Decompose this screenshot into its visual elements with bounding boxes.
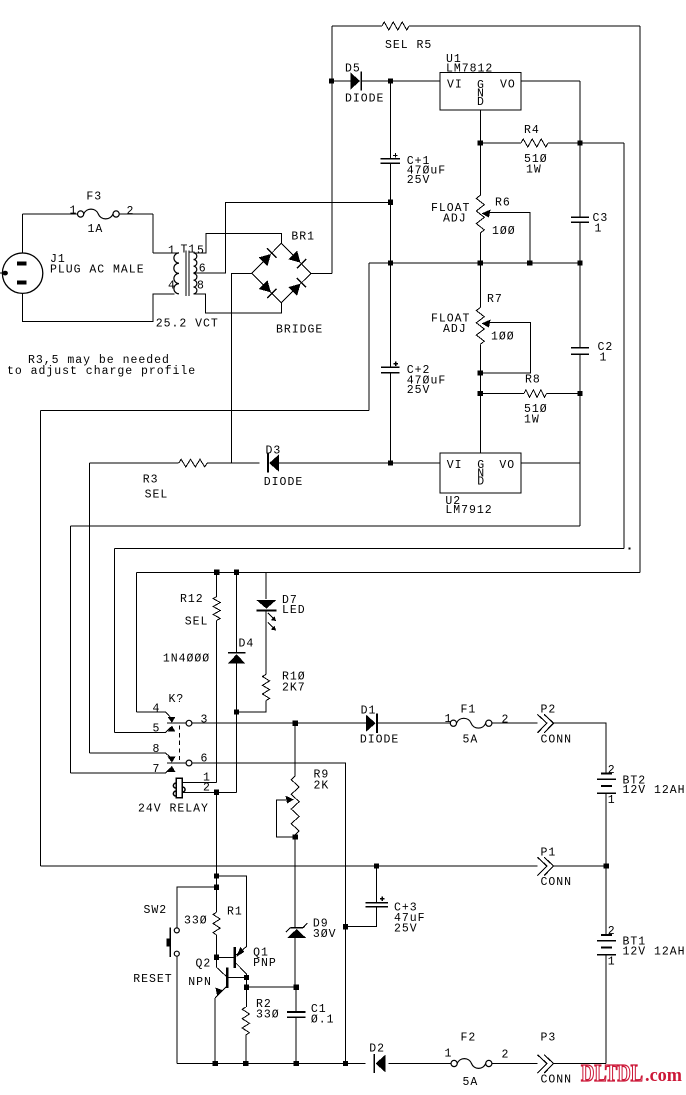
- svg-text:F3: F3: [86, 190, 102, 203]
- junction SW2 branch: [214, 885, 219, 890]
- svg-text:D4: D4: [239, 637, 255, 650]
- label LM7912: [445, 504, 492, 517]
- label 1W (R8): [524, 413, 540, 426]
- junction R2 top: [244, 985, 249, 990]
- svg-text:1: 1: [608, 955, 616, 968]
- resistor R2: [242, 1007, 249, 1035]
- wire R6 bottom: [479, 233, 481, 263]
- label 1A (F3): [88, 223, 104, 236]
- label DIODE (D3): [264, 476, 303, 489]
- note line2: [7, 365, 196, 378]
- label BRIDGE: [276, 323, 323, 336]
- junction Q1 base: [214, 955, 219, 960]
- svg-text:T1: T1: [181, 243, 197, 256]
- resistor R8: [524, 390, 547, 398]
- label 7 (K): [153, 763, 161, 776]
- svg-text:33Ø: 33Ø: [256, 1008, 280, 1021]
- wire x114 vertical (pin5): [113, 548, 115, 732]
- svg-text:5A: 5A: [463, 1076, 479, 1089]
- fuse F1: [450, 718, 492, 728]
- label D5: [345, 62, 361, 75]
- transformer T1 primary coil: [174, 253, 179, 294]
- wire R6 wiper: [490, 213, 530, 264]
- label VI (U2): [447, 459, 463, 472]
- wire x580 upper: [579, 81, 581, 217]
- wire y572 rail: [136, 571, 640, 573]
- svg-text:D: D: [477, 475, 485, 488]
- label 5 (K): [153, 722, 161, 735]
- junction at D5 anode: [329, 78, 334, 83]
- arrow relay pin7: [168, 766, 176, 772]
- op-amp U1 box LM7812: [440, 73, 521, 111]
- resistor R1: [213, 912, 220, 935]
- label 25V (C+2): [407, 384, 431, 397]
- junction C+3 neg: [343, 924, 348, 929]
- label RESET: [133, 973, 172, 986]
- label 2 (BT1): [608, 925, 616, 938]
- label R3: [143, 473, 159, 486]
- led D7: [256, 600, 276, 610]
- svg-text:2: 2: [608, 925, 616, 938]
- fuse F3: [78, 209, 120, 219]
- wire R10 top: [265, 611, 267, 674]
- arrow R9 wiper: [286, 796, 294, 804]
- wire C+2 top: [389, 263, 391, 367]
- junction R9 top: [293, 721, 298, 726]
- svg-text:to adjust charge profile: to adjust charge profile: [7, 365, 196, 378]
- wire R2 bottom: [245, 1035, 247, 1064]
- svg-text:1N4ØØØ: 1N4ØØØ: [163, 652, 210, 665]
- connector P3: [537, 1055, 553, 1073]
- label 25V (C+3): [394, 922, 418, 935]
- label C+2: [407, 364, 431, 377]
- junction Q1e branch: [214, 873, 219, 878]
- svg-text:2: 2: [608, 764, 616, 777]
- potentiometer R6: [476, 195, 484, 233]
- wire pin3 line: [192, 722, 366, 724]
- wire relay contact6 bar: [167, 762, 186, 764]
- label 25.2 VCT: [156, 317, 219, 330]
- label C2: [598, 341, 614, 354]
- battery BT1: [597, 935, 616, 955]
- label SEL (R12): [185, 615, 209, 628]
- svg-text:1: 1: [168, 244, 176, 257]
- svg-text:5: 5: [197, 244, 205, 257]
- wire x89 vertical (pin8): [89, 463, 91, 753]
- svg-text:1: 1: [595, 222, 603, 235]
- label 1 (T1): [168, 244, 176, 257]
- wire U1 GND pin: [479, 110, 481, 143]
- wire R10 bottom: [237, 701, 266, 712]
- note line1: [28, 354, 170, 367]
- wire D4 bottom: [236, 664, 238, 793]
- label 510 (R4): [524, 153, 548, 166]
- svg-text:SEL R5: SEL R5: [385, 39, 432, 52]
- label 1 (K coil): [203, 771, 211, 784]
- junction R4 right: [577, 140, 582, 145]
- svg-text:.com: .com: [645, 1065, 682, 1086]
- svg-text:R4: R4: [524, 124, 540, 137]
- label FLOAT (R6): [431, 202, 470, 215]
- wire T1 pin8 to bridge bottom: [194, 294, 282, 313]
- label F3: [86, 190, 102, 203]
- junction D4 top: [234, 570, 239, 575]
- diode D2: [374, 1054, 385, 1073]
- label D3: [266, 444, 282, 457]
- svg-text:R8: R8: [525, 373, 541, 386]
- label VO (U2): [499, 459, 515, 472]
- contact circle 6: [186, 760, 192, 766]
- wire R9 wiper: [276, 800, 295, 837]
- svg-text:DLTDL: DLTDL: [581, 1061, 643, 1087]
- connector J1 plug: [0, 253, 43, 293]
- svg-text:3ØV: 3ØV: [313, 928, 337, 941]
- diode D3: [268, 454, 279, 473]
- svg-text:DIODE: DIODE: [264, 476, 303, 489]
- label F1: [461, 703, 477, 716]
- svg-text:1: 1: [600, 351, 608, 364]
- svg-text:24V RELAY: 24V RELAY: [138, 802, 209, 815]
- label 8 (K): [153, 743, 161, 756]
- label CONN (P3): [541, 1073, 573, 1086]
- wire SW2 bottom: [176, 956, 178, 1063]
- label R1: [227, 905, 243, 918]
- svg-text:12V 12AH: 12V 12AH: [623, 946, 686, 959]
- wire P1 rail: [41, 865, 607, 867]
- diode BR1-TL: [259, 248, 277, 266]
- wire relay pin8: [90, 753, 171, 757]
- label 0.1 (C1): [311, 1013, 335, 1026]
- wire relay pin2: [182, 791, 237, 793]
- wire y526 line: [71, 525, 580, 527]
- label 6 (K): [201, 752, 209, 765]
- resistor R10: [262, 674, 269, 700]
- resistor R5: [382, 22, 409, 30]
- label 100 (R7): [491, 330, 515, 343]
- label P1: [541, 846, 557, 859]
- transformer T1 secondary upper: [194, 253, 197, 273]
- svg-text:VI: VI: [447, 459, 463, 472]
- wire D9 bottom: [294, 938, 296, 987]
- relay coil: [173, 778, 185, 798]
- svg-text:2: 2: [127, 205, 135, 218]
- label R4: [524, 124, 540, 137]
- label 1 (BT1): [608, 955, 616, 968]
- svg-text:25V: 25V: [407, 384, 431, 397]
- diode BR1-TR: [288, 251, 306, 269]
- label R10: [282, 670, 306, 683]
- svg-text:SW2: SW2: [144, 904, 168, 917]
- wire C+1 top: [389, 81, 391, 159]
- wire R7 top: [479, 263, 481, 308]
- arrow relay pin5: [168, 726, 176, 732]
- svg-text:2K7: 2K7: [282, 681, 306, 694]
- label 1 (F3): [70, 204, 78, 217]
- wire R2 top: [246, 987, 248, 1007]
- label BT1: [623, 936, 647, 949]
- wire T1 pin1: [153, 214, 179, 253]
- svg-text:CONN: CONN: [541, 1073, 573, 1086]
- wire right outer vertical x640: [639, 26, 641, 572]
- wire C1 bottom: [295, 1017, 297, 1063]
- label DIODE (D5): [345, 92, 384, 105]
- junction D4/R10: [234, 709, 239, 714]
- label 4 (K): [153, 702, 161, 715]
- label 25V (C+1): [407, 174, 431, 187]
- wire Q1 emitter branch: [217, 876, 247, 947]
- wire bridge plus: [311, 272, 332, 274]
- arrow relay pin8: [168, 757, 176, 763]
- capacitor C+3: [365, 897, 388, 907]
- resistor R12: [213, 597, 220, 621]
- potentiometer R9: [291, 776, 299, 835]
- junction battery mid: [604, 863, 609, 868]
- label U2: [445, 495, 461, 508]
- wire bottom rail: [177, 1063, 606, 1065]
- svg-text:R12: R12: [180, 593, 204, 606]
- svg-text:33Ø: 33Ø: [184, 914, 208, 927]
- junction R2 rail: [243, 1061, 248, 1066]
- wire y410 line: [41, 410, 370, 412]
- svg-text:1W: 1W: [526, 163, 542, 176]
- label T1: [181, 243, 197, 256]
- svg-text:6: 6: [199, 262, 207, 275]
- wire Q2 emitter: [214, 998, 216, 1064]
- svg-text:2: 2: [502, 713, 510, 726]
- label 2 (BT2): [608, 764, 616, 777]
- label Q1: [253, 946, 269, 959]
- svg-text:D: D: [477, 96, 485, 109]
- junction C1 rail: [294, 1061, 299, 1066]
- wire R12 top: [216, 572, 218, 596]
- svg-text:5: 5: [153, 722, 161, 735]
- junction CT gnd tap: [388, 200, 393, 205]
- contact circle 3: [186, 720, 192, 726]
- label 330 (R2): [256, 1008, 280, 1021]
- svg-text:R3: R3: [143, 473, 159, 486]
- capacitor C1: [287, 1012, 305, 1017]
- wire F1 to P2: [492, 722, 538, 724]
- svg-text:BRIDGE: BRIDGE: [276, 323, 323, 336]
- label 1 (C2): [600, 351, 608, 364]
- label BT2: [623, 774, 647, 787]
- label ADJ (R6): [443, 212, 467, 225]
- label NPN: [188, 976, 212, 989]
- label 1 (F2): [445, 1047, 453, 1060]
- wire R12 bottom: [216, 620, 218, 782]
- junction R7 wiper return: [478, 370, 483, 375]
- junction pin2: [214, 790, 219, 795]
- svg-text:PNP: PNP: [253, 957, 277, 970]
- wire P1 to BT1: [605, 866, 607, 934]
- svg-text:1: 1: [445, 713, 453, 726]
- label 2 (K coil): [203, 782, 211, 795]
- svg-text:1: 1: [608, 794, 616, 807]
- svg-text:LM7912: LM7912: [445, 504, 492, 517]
- wire x624 vertical: [623, 143, 625, 548]
- svg-text:NPN: NPN: [188, 976, 212, 989]
- connector P1: [537, 857, 553, 875]
- svg-text:VO: VO: [499, 459, 515, 472]
- capacitor C+1: [381, 153, 400, 163]
- svg-text:P2: P2: [541, 703, 557, 716]
- svg-text:F1: F1: [461, 703, 477, 716]
- svg-text:SEL: SEL: [145, 488, 169, 501]
- wire T1 pin6 CT to gnd: [194, 202, 391, 272]
- wire node to C1: [247, 986, 297, 988]
- label 6 (T1): [199, 262, 207, 275]
- wire x136 vertical (pin4): [135, 572, 137, 712]
- label F2: [461, 1031, 477, 1044]
- svg-text:CONN: CONN: [541, 876, 573, 889]
- label 1W (R4): [526, 163, 542, 176]
- label P2: [541, 703, 557, 716]
- svg-text:BR1: BR1: [291, 230, 315, 243]
- junction x580 at mid rail: [577, 260, 582, 265]
- junction C+1 top: [388, 78, 393, 83]
- label D2: [369, 1042, 385, 1055]
- stray dot: [628, 547, 630, 549]
- svg-text:ADJ: ADJ: [443, 212, 467, 225]
- diode D5: [350, 71, 361, 90]
- label C+3: [394, 901, 418, 914]
- transformer T1 secondary lower: [194, 273, 197, 293]
- svg-text:F2: F2: [461, 1031, 477, 1044]
- label 3 (K): [201, 713, 209, 726]
- wire J1 bottom loop: [23, 293, 175, 321]
- wire C+1 bottom to rail: [389, 163, 391, 263]
- svg-text:8: 8: [197, 279, 205, 292]
- label 1 (F1): [445, 713, 453, 726]
- resistor R4: [521, 139, 548, 147]
- label R2: [256, 998, 272, 1011]
- label Q2: [196, 957, 212, 970]
- svg-text:P1: P1: [541, 846, 557, 859]
- svg-text:D1: D1: [361, 704, 377, 717]
- wire F3 right: [119, 213, 153, 215]
- transistor Q1: [217, 947, 247, 975]
- svg-text:2: 2: [502, 1048, 510, 1061]
- connector P2: [537, 714, 553, 732]
- wire pin2 down: [216, 792, 218, 912]
- svg-text:1: 1: [445, 1047, 453, 1060]
- wire R6 top: [479, 143, 481, 195]
- label DIODE (D1): [360, 733, 399, 746]
- svg-text:CONN: CONN: [541, 733, 573, 746]
- arrow R7 wiper: [482, 320, 491, 328]
- wire R3 line: [90, 462, 440, 464]
- diode D1: [366, 714, 377, 733]
- wire D5 line y81: [332, 80, 440, 82]
- junction pin6 rail: [343, 1061, 348, 1066]
- junction Q2e rail: [213, 1061, 218, 1066]
- label R6: [495, 196, 511, 209]
- fuse F2: [451, 1059, 492, 1069]
- wire top rail y26: [332, 25, 640, 27]
- wire x40 vertical: [40, 411, 42, 867]
- label R12: [180, 593, 204, 606]
- wire relay pin1: [182, 781, 217, 783]
- arrow relay pin4: [168, 717, 176, 723]
- wire C1 top: [295, 987, 297, 1012]
- svg-text:2: 2: [203, 782, 211, 795]
- label FLOAT (R7): [431, 312, 470, 325]
- svg-text:DIODE: DIODE: [345, 92, 384, 105]
- label D7: [282, 594, 298, 607]
- wire R9 bottom to D9: [294, 835, 296, 928]
- label CONN (P1): [541, 876, 573, 889]
- junction R12 top: [214, 570, 219, 575]
- arrow R6 wiper: [482, 210, 491, 218]
- label GND (U2): [477, 459, 485, 488]
- svg-text:K?: K?: [169, 693, 185, 706]
- label C1: [311, 1003, 327, 1016]
- wire relay pin7: [71, 768, 171, 773]
- wire F3 left: [23, 213, 78, 215]
- wire Q2base node down: [246, 978, 248, 988]
- wire bridge minus drop: [231, 273, 251, 463]
- wire R7 wiper: [480, 323, 530, 374]
- label K?: [169, 693, 185, 706]
- rectifier BR1 diamond: [252, 243, 311, 302]
- label 12V 12AH (BT2): [623, 784, 686, 797]
- label U1: [446, 53, 462, 66]
- svg-text:2K: 2K: [314, 779, 330, 792]
- potentiometer R7: [476, 308, 484, 345]
- label 4 (T1): [168, 279, 176, 292]
- logo DLTDL.com: [581, 1061, 682, 1087]
- wire D1 to F1: [378, 722, 451, 724]
- svg-text:LED: LED: [282, 604, 306, 617]
- junction R9 wiper: [293, 834, 298, 839]
- label 1N4000: [163, 652, 210, 665]
- wire x70 vertical (pin7): [70, 526, 72, 773]
- wire BT2 to P1 rail: [605, 793, 607, 866]
- svg-text:PLUG AC MALE: PLUG AC MALE: [50, 263, 145, 276]
- label ADJ (R7): [443, 323, 467, 336]
- label R9: [314, 768, 330, 781]
- svg-text:RESET: RESET: [133, 973, 172, 986]
- label SEL (R3): [145, 488, 169, 501]
- wire R9 top: [294, 723, 296, 776]
- label 2K (R9): [314, 779, 330, 792]
- wire D7 top: [265, 572, 267, 599]
- wire J1 top: [22, 214, 24, 253]
- junction R6 wiper at rail: [527, 260, 532, 265]
- label 5A (F1): [463, 733, 479, 746]
- label C3: [593, 212, 609, 225]
- resistor R3: [179, 459, 207, 467]
- label 8 (T1): [197, 279, 205, 292]
- label GND (U1): [477, 79, 485, 109]
- wire Q1 collector: [246, 974, 248, 978]
- svg-text:D2: D2: [369, 1042, 385, 1055]
- svg-text:1ØØ: 1ØØ: [492, 225, 516, 238]
- label R8: [525, 373, 541, 386]
- svg-text:4: 4: [153, 702, 161, 715]
- junction D9/C1 node: [294, 985, 299, 990]
- label J1: [50, 253, 66, 266]
- junction R6 bottom at rail: [478, 260, 483, 265]
- label 5 (T1): [197, 244, 205, 257]
- svg-text:DIODE: DIODE: [360, 733, 399, 746]
- svg-text:D5: D5: [345, 62, 361, 75]
- wire D4 top: [236, 572, 238, 652]
- wire U1 VO to x580: [521, 80, 580, 82]
- label 2 (F3): [127, 205, 135, 218]
- capacitor C2: [571, 348, 589, 354]
- wire y548 line: [114, 547, 624, 549]
